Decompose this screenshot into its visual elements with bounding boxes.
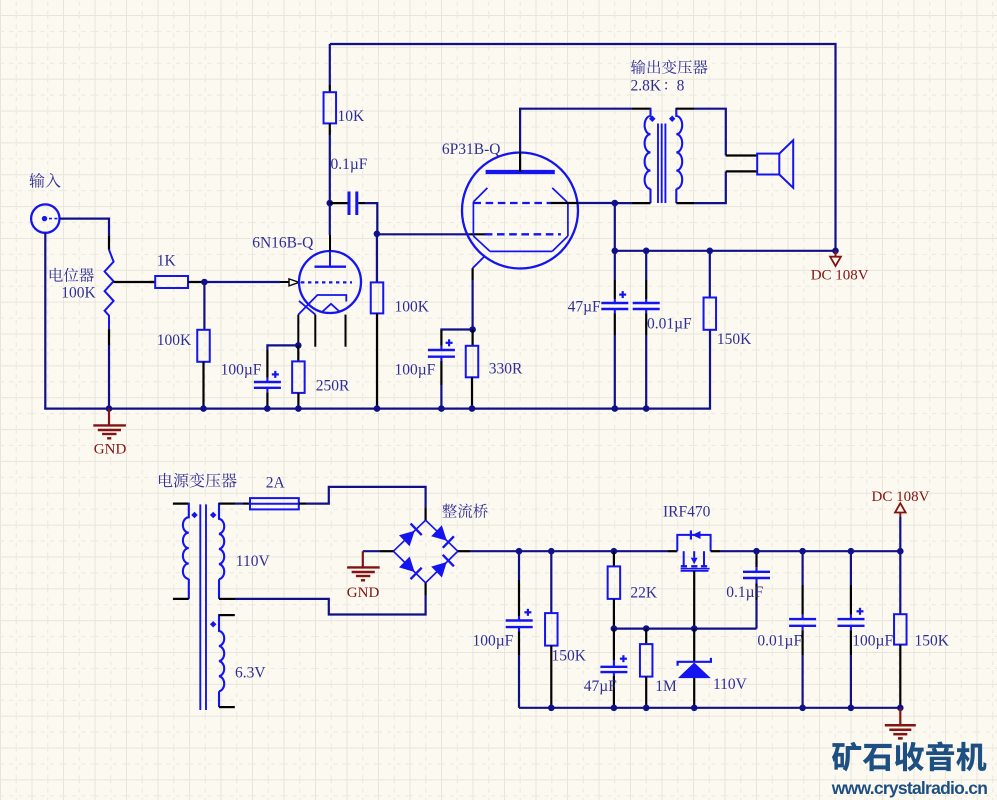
svg-text:1M: 1M xyxy=(655,678,677,695)
svg-text:47µF: 47µF xyxy=(568,299,601,316)
wire potentiometer bottom to ground rail xyxy=(108,345,110,409)
potentiometer RP 100K xyxy=(108,236,110,250)
zener D5 110V xyxy=(693,629,695,661)
wire C1 to V2 grid node xyxy=(365,203,377,234)
resistor R5 250R cathode V1 xyxy=(297,345,299,361)
capacitor C8 0.1µF (drain-gate) xyxy=(755,551,757,554)
svg-text:100K: 100K xyxy=(61,285,96,302)
svg-text:22K: 22K xyxy=(630,585,658,602)
svg-text::: : xyxy=(664,77,668,94)
resistor R10 1M xyxy=(645,629,647,645)
capacitor C6 100µF (raw filter) xyxy=(518,551,520,580)
wire V2 screen to B+ node xyxy=(550,202,578,204)
svg-text:8: 8 xyxy=(677,78,685,95)
wire ground rail top section xyxy=(44,330,710,409)
svg-text:150K: 150K xyxy=(915,632,950,649)
svg-text:100K: 100K xyxy=(395,299,430,316)
node V2 grid junction xyxy=(374,231,381,238)
ground GND symbol (bottom right) xyxy=(899,708,901,725)
svg-text:0.1µF: 0.1µF xyxy=(726,584,763,601)
diode D3 (left to bottom) xyxy=(399,557,415,573)
capacitor C2 100µF cathode bypass V1 xyxy=(267,345,298,350)
wire T2 secondary bottom to bridge bottom xyxy=(235,595,426,615)
diode D4 (bottom to right) xyxy=(431,562,447,578)
capacitor C5 0.01µF xyxy=(645,251,647,280)
svg-text:www.crystalradio.cn: www.crystalradio.cn xyxy=(831,778,988,798)
wire wiper to R1 xyxy=(150,281,155,283)
node V1 cathode junction xyxy=(295,342,302,349)
label 整流桥 xyxy=(442,504,457,518)
svg-text:47µF: 47µF xyxy=(584,678,617,695)
label 电源变压器 xyxy=(159,473,172,487)
svg-text:150K: 150K xyxy=(552,648,587,665)
svg-text:100µF: 100µF xyxy=(395,362,436,379)
wire V2 grid wire xyxy=(377,233,470,235)
pin arrow V1 grid xyxy=(289,279,299,286)
wire DC raw rail (bridge to MOSFET) xyxy=(470,550,668,552)
svg-text:6P31B-Q: 6P31B-Q xyxy=(442,141,501,158)
tube V2 6P31B-Q xyxy=(462,153,578,269)
wire fuse to bridge top xyxy=(306,487,426,508)
svg-text:100µF: 100µF xyxy=(852,632,893,649)
capacitor C7 47µF (gate) xyxy=(613,629,615,660)
svg-text:0.1µF: 0.1µF xyxy=(331,156,368,173)
label 输出变压器 xyxy=(631,60,646,74)
svg-text:IRF470: IRF470 xyxy=(663,504,711,521)
wire grid net to V1 grid pin xyxy=(204,281,280,283)
diode D1 (left to top) xyxy=(399,531,415,547)
wire jack to potentiometer top xyxy=(60,219,110,236)
svg-text:6.3V: 6.3V xyxy=(235,665,266,682)
resistor R1 1K xyxy=(155,276,188,288)
wire T2 secondary to fuse xyxy=(235,503,243,505)
svg-text:GND: GND xyxy=(94,441,127,457)
svg-text:100K: 100K xyxy=(157,332,192,349)
resistor R6 330R cathode V2 xyxy=(472,330,474,346)
watermark 矿石收音机 xyxy=(832,742,861,772)
resistor R11 150K (output bleeder) xyxy=(899,551,901,614)
svg-text:DC 108V: DC 108V xyxy=(872,489,930,505)
capacitor C10 100µF (output) xyxy=(850,551,852,585)
wire bridge left to ground xyxy=(363,550,380,552)
resistor R9 22K xyxy=(613,551,615,566)
label 电位器 / 100K xyxy=(50,268,63,282)
svg-text:0.01µF: 0.01µF xyxy=(757,632,802,649)
resistor R3 10K plate load xyxy=(324,92,337,123)
svg-text:100µF: 100µF xyxy=(473,632,514,649)
svg-text:110V: 110V xyxy=(236,553,271,570)
wire gate node line xyxy=(614,627,757,629)
wire B+ rail down to 10K xyxy=(329,44,331,85)
wire V2 cathode down xyxy=(472,280,474,330)
svg-text:100µF: 100µF xyxy=(221,362,262,379)
resistor R8 150K xyxy=(550,551,552,613)
svg-text:1K: 1K xyxy=(157,253,177,270)
tube V1 6N16B-Q xyxy=(299,251,361,313)
wire 10K to V1 plate node xyxy=(329,135,331,235)
label 输入 (input) xyxy=(29,173,44,188)
capacitor C4 47µF B+ filter xyxy=(614,251,616,280)
resistor R2 100K grid leak xyxy=(203,282,205,330)
bridge rectifier diamond xyxy=(393,520,457,583)
svg-text:150K: 150K xyxy=(717,331,752,348)
resistor R7 150K bleeder xyxy=(709,251,711,298)
svg-text:10K: 10K xyxy=(338,108,366,125)
wire T1 primary bottom to B+ node xyxy=(615,203,632,251)
svg-text:DC 108V: DC 108V xyxy=(811,267,869,283)
svg-text:330R: 330R xyxy=(489,360,523,377)
wire B+ top rail xyxy=(330,44,836,251)
speaker LS1 xyxy=(757,154,779,175)
svg-text:6N16B-Q: 6N16B-Q xyxy=(252,235,313,252)
svg-text:GND: GND xyxy=(347,585,380,601)
power port DC 108V (top) xyxy=(835,251,837,257)
diode D2 (top to right) xyxy=(431,525,447,541)
resistor R4 100K (V2 grid leak) xyxy=(376,234,378,283)
fuse F1 2A xyxy=(243,503,250,505)
node plate junction xyxy=(327,200,334,207)
capacitor C3 100µF cathode bypass V2 xyxy=(441,328,472,331)
svg-text:250R: 250R xyxy=(316,377,350,394)
wire MOSFET out rail xyxy=(720,550,900,552)
output transformer T1 xyxy=(632,108,651,110)
node A junction (grid net) xyxy=(201,279,208,286)
wire bottom ground rail xyxy=(519,707,900,709)
wire jack shield down to ground rail xyxy=(44,233,46,409)
capacitor C1 0.1µF coupling xyxy=(330,202,348,204)
wire B+ mid rail xyxy=(615,250,836,252)
svg-text:2.8K: 2.8K xyxy=(631,78,662,95)
ground GND symbol (bridge) xyxy=(362,551,364,567)
power port DC 108V (bottom) xyxy=(899,517,901,551)
connector J1 input jack xyxy=(31,204,59,232)
wire V2 plate to transformer xyxy=(520,109,632,152)
svg-text:0.01µF: 0.01µF xyxy=(647,315,692,332)
ground GND symbol (top) xyxy=(108,409,110,426)
transformer T2 power transformer xyxy=(173,503,189,505)
node V2 cathode junction xyxy=(469,326,476,333)
svg-text:110V: 110V xyxy=(713,676,748,693)
capacitor C9 0.01µF (output) xyxy=(801,551,803,585)
svg-text:2A: 2A xyxy=(266,475,286,492)
mosfet Q1 IRF470 xyxy=(668,550,677,552)
wire T1 secondary to speaker xyxy=(694,109,726,156)
